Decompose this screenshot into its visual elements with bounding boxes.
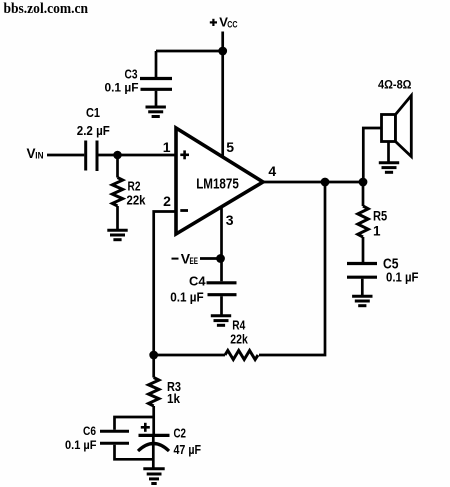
svg-text:3: 3 (226, 212, 234, 228)
svg-text:1: 1 (373, 224, 381, 239)
svg-text:0.1 µF: 0.1 µF (170, 290, 204, 304)
svg-text:4Ω-8Ω: 4Ω-8Ω (378, 78, 412, 92)
svg-text:CC: CC (227, 20, 238, 30)
svg-text:4: 4 (268, 163, 276, 179)
svg-text:EE: EE (190, 256, 199, 267)
svg-text:2.2 µF: 2.2 µF (77, 124, 110, 138)
svg-text:1: 1 (163, 139, 171, 155)
svg-text:1k: 1k (167, 391, 181, 406)
svg-text:0.1 µF: 0.1 µF (386, 271, 419, 285)
svg-text:5: 5 (226, 139, 234, 155)
svg-text:C2: C2 (174, 427, 187, 441)
svg-text:R2: R2 (128, 180, 141, 194)
svg-text:22k: 22k (230, 333, 248, 347)
svg-text:bbs.zol.com.cn: bbs.zol.com.cn (4, 1, 89, 17)
svg-text:C6: C6 (83, 424, 96, 438)
svg-text:2: 2 (163, 193, 171, 209)
svg-text:C1: C1 (86, 105, 100, 120)
svg-text:C3: C3 (125, 67, 138, 81)
svg-text:IN: IN (35, 150, 43, 160)
svg-text:C4: C4 (189, 273, 206, 288)
svg-text:0.1 µF: 0.1 µF (65, 438, 97, 452)
svg-text:47 µF: 47 µF (174, 443, 202, 457)
svg-text:0.1 µF: 0.1 µF (105, 80, 139, 94)
svg-text:22k: 22k (127, 193, 147, 208)
svg-text:R5: R5 (373, 209, 388, 224)
svg-text:V: V (27, 146, 36, 161)
svg-text:R4: R4 (232, 319, 245, 333)
svg-text:LM1875: LM1875 (196, 175, 239, 192)
